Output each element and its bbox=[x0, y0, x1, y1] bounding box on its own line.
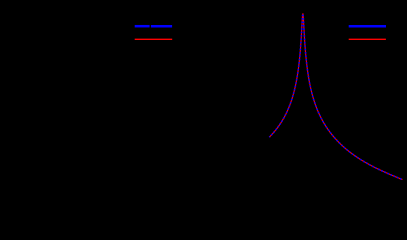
resonance curve, red solid (exact solution) bbox=[269, 14, 402, 180]
legend sample line, red solid (left plot) bbox=[135, 38, 173, 40]
legend sample line, red solid (right plot) bbox=[349, 38, 386, 40]
legend sample line, blue solid (right plot) bbox=[349, 25, 386, 28]
resonance curve, blue dotted overlay (approximation) bbox=[269, 14, 402, 180]
legend sample line, blue dashed (left plot), segment 1 bbox=[135, 25, 150, 28]
legend sample line, blue dashed (left plot), segment 2 bbox=[151, 25, 172, 28]
